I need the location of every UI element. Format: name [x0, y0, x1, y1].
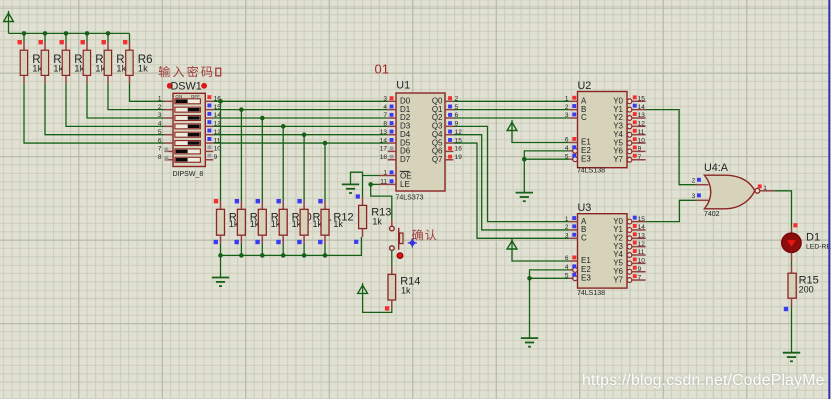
wire U1 Q4 to U3 B: [453, 135, 569, 230]
svg-text:11: 11: [638, 129, 645, 136]
resistor R7 1k: [214, 199, 243, 255]
svg-text:3: 3: [692, 193, 696, 200]
svg-text:7: 7: [638, 154, 642, 161]
resistor R4 1k: [81, 33, 111, 83]
svg-text:14: 14: [380, 137, 388, 144]
wire U1 LE to button: [371, 183, 380, 185]
wire R14 bottom to power: [363, 296, 392, 313]
junction node 1: [218, 99, 223, 104]
ground (left of U1 LE): [342, 184, 359, 193]
svg-text:Y7: Y7: [613, 155, 623, 164]
svg-text:3: 3: [383, 96, 387, 103]
svg-text:7: 7: [638, 274, 642, 281]
svg-text:7: 7: [158, 146, 162, 153]
wire R4 bottom to DSW1 pin 3: [87, 84, 165, 118]
node label 输入密码 (enter password): [159, 66, 221, 77]
resistor R15 200: [784, 265, 819, 311]
junction node 3: [260, 116, 265, 121]
junction node 2: [239, 107, 244, 112]
svg-text:15: 15: [638, 96, 646, 103]
DSW1 right pins 16-9: [205, 95, 221, 161]
switch DSW1 DIPSW_8: [167, 80, 207, 166]
svg-text:8: 8: [158, 154, 162, 161]
power stem: [362, 293, 364, 296]
wire U1 Q1 to U2 B: [453, 109, 569, 111]
svg-text:5: 5: [158, 129, 162, 136]
wire DSW1 pin 13 to U1 D3: [213, 125, 387, 127]
svg-text:1k: 1k: [372, 217, 382, 227]
wire down to R12: [324, 143, 326, 201]
svg-text:11: 11: [638, 249, 645, 256]
resistor R12 1k: [318, 199, 353, 255]
NOR gate U4:A 7402: [692, 162, 775, 218]
wire down to R9: [261, 118, 263, 201]
svg-text:2: 2: [692, 177, 696, 184]
wire U1 Q3 to U3 A: [453, 126, 569, 221]
ground (under U2): [516, 193, 533, 202]
resistor R3 1k: [60, 33, 90, 83]
wire R1 bottom to DSW1 pin 6: [24, 84, 165, 143]
DSW1 part name DIPSW_8: [173, 171, 204, 178]
DSW1 left pins 1-8: [158, 96, 173, 161]
svg-text:13: 13: [638, 233, 646, 240]
svg-text:9: 9: [214, 154, 218, 161]
push button (confirm): [390, 219, 403, 250]
resistor R11 1k: [297, 199, 332, 255]
junction node 5: [302, 132, 307, 137]
power symbol (VCC at U3 E1): [507, 239, 517, 249]
svg-text:C: C: [581, 113, 587, 122]
wire U1 Q0 to U2 A: [453, 100, 569, 102]
wire OE net down to R13: [362, 176, 364, 198]
svg-text:200: 200: [799, 285, 814, 295]
wire ground rail under R7-R12 to R13 bottom: [221, 237, 362, 255]
label 确认 (confirm): [412, 229, 437, 240]
svg-text:Q7: Q7: [432, 155, 443, 164]
svg-text:7402: 7402: [704, 211, 720, 218]
junction LE node: [368, 182, 373, 187]
wire rail to ground: [220, 255, 222, 277]
ground (under R7): [212, 278, 229, 287]
svg-text:18: 18: [380, 154, 388, 161]
resistor R6 1k: [123, 33, 153, 83]
svg-text:19: 19: [455, 154, 463, 161]
LED D1 LED-RED: [782, 223, 831, 262]
resistor R8 1k: [235, 199, 264, 255]
power symbol (VCC top-left): [4, 11, 14, 22]
resistor R1 1k: [18, 33, 48, 83]
net label 01: [375, 62, 389, 77]
wire U1 Q2 to U2 C: [453, 117, 569, 119]
svg-text:1: 1: [383, 170, 387, 177]
svg-text:74LS138: 74LS138: [577, 168, 605, 175]
decoder U3 74LS138: [565, 202, 646, 297]
wire VCC rail to R1-R6 tops: [9, 22, 130, 34]
svg-text:Y7: Y7: [613, 275, 623, 284]
svg-text:D7: D7: [400, 155, 411, 164]
junction dots on ground rail: [218, 253, 327, 258]
svg-text:74LS138: 74LS138: [577, 290, 605, 297]
wire R3 bottom to DSW1 pin 4: [66, 84, 165, 127]
watermark: [582, 372, 825, 390]
svg-text:1: 1: [763, 185, 767, 192]
wire U2 E2/E3 to ground: [524, 151, 569, 159]
red node marker: [397, 253, 403, 259]
resistor R5 1k: [102, 33, 132, 83]
decoder U2 74LS138: [565, 80, 646, 175]
svg-text:3: 3: [565, 233, 569, 240]
svg-text:1k: 1k: [138, 64, 148, 75]
svg-text:OE: OE: [400, 171, 412, 180]
wire down to R7: [220, 101, 222, 201]
svg-text:1: 1: [158, 96, 162, 103]
svg-text:9: 9: [638, 146, 642, 153]
svg-text:D1: D1: [806, 231, 820, 243]
svg-text:14: 14: [638, 224, 646, 231]
junction U3 E3: [527, 276, 532, 281]
svg-text:17: 17: [380, 146, 388, 153]
wire DSW1 pin 14 to U1 D2: [213, 117, 387, 119]
ground (under U3): [521, 338, 538, 347]
wire DSW1 pin 11 to U1 D5: [213, 142, 387, 144]
sheet border (blue): [828, 0, 830, 399]
svg-text:2: 2: [565, 224, 569, 231]
svg-text:C: C: [581, 234, 587, 243]
junction node 4: [281, 124, 286, 129]
svg-text:9: 9: [638, 266, 642, 273]
resistor R14 1k: [385, 266, 420, 310]
svg-text:E3: E3: [581, 274, 591, 283]
wire U3 E2/E3 to ground: [530, 270, 570, 278]
svg-text:LED-RED: LED-RED: [806, 244, 831, 251]
wire U2 E1 to power: [512, 131, 569, 143]
svg-text:1k: 1k: [401, 286, 411, 296]
resistor R9 1k: [255, 199, 284, 255]
svg-text:16: 16: [455, 146, 463, 153]
resistor R13 1k: [354, 194, 391, 244]
wire U3 Y0 to U4 input 3: [646, 200, 696, 221]
wire down to R10: [282, 126, 284, 201]
svg-text:1k: 1k: [116, 64, 126, 75]
resistor R10 1k: [276, 199, 311, 255]
power symbol (VCC at R14): [358, 283, 368, 293]
wire U1 Q5 to U3 C: [453, 143, 569, 238]
wire DSW1 pin 12 to U1 D4: [213, 134, 387, 136]
svg-text:8: 8: [383, 121, 387, 128]
wire DSW1 pin 16 to U1 D0: [213, 100, 387, 102]
svg-text:2: 2: [158, 104, 162, 111]
svg-text:15: 15: [638, 216, 646, 223]
svg-text:13: 13: [380, 129, 388, 136]
wire DSW1 pin 15 to U1 D1: [213, 109, 387, 111]
wire U2 Y1 to U4 input 2: [646, 110, 696, 185]
svg-text:10: 10: [638, 137, 646, 144]
svg-text:2: 2: [565, 104, 569, 111]
wire R6 bottom to DSW1 pin 1: [130, 84, 165, 102]
svg-text:E1: E1: [581, 256, 591, 265]
ground (under R15): [783, 353, 800, 362]
svg-text:U4:A: U4:A: [704, 162, 729, 174]
svg-text:7: 7: [383, 112, 387, 119]
svg-text:DSW1: DSW1: [171, 80, 202, 92]
svg-text:13: 13: [638, 112, 646, 119]
wire U4 output to LED D1: [774, 191, 791, 228]
svg-text:10: 10: [638, 258, 646, 265]
svg-text:1k: 1k: [333, 219, 343, 229]
svg-text:ON: ON: [175, 94, 182, 99]
wire button to R14: [391, 251, 393, 267]
junction U2 E3: [522, 157, 527, 162]
svg-text:12: 12: [638, 241, 646, 248]
svg-text:3: 3: [158, 112, 162, 119]
svg-text:1: 1: [565, 96, 569, 103]
wire down to R8: [240, 110, 242, 201]
svg-text:4: 4: [158, 121, 162, 128]
resistor R2 1k: [39, 33, 69, 83]
junction dots on VCC rail: [22, 31, 111, 36]
svg-text:74LS373: 74LS373: [396, 194, 424, 201]
latch U1 74LS373: [380, 79, 463, 201]
svg-text:U3: U3: [578, 202, 592, 214]
svg-text:12: 12: [638, 121, 646, 128]
svg-text:DIPSW_8: DIPSW_8: [173, 171, 204, 178]
wire R15 to ground: [791, 307, 793, 353]
wire U1 OE to ground and R13 top: [351, 172, 380, 184]
junction node 6: [323, 141, 328, 146]
power symbol (VCC at U2 E1): [507, 120, 517, 130]
svg-text:3: 3: [565, 112, 569, 119]
svg-text:14: 14: [638, 104, 646, 111]
svg-text:U1: U1: [396, 79, 410, 91]
wire LED to R15: [791, 262, 793, 265]
svg-text:11: 11: [380, 179, 387, 186]
origin marker (blue cross): [408, 238, 417, 247]
wire R2 bottom to DSW1 pin 5: [45, 84, 165, 135]
svg-text:6: 6: [158, 137, 162, 144]
svg-text:1: 1: [565, 216, 569, 223]
svg-text:01: 01: [375, 62, 389, 77]
svg-text:U2: U2: [578, 80, 592, 92]
svg-text:E3: E3: [581, 154, 591, 163]
svg-text:OFF: OFF: [191, 94, 200, 99]
svg-text:LE: LE: [400, 180, 410, 189]
wire U3 E1 to power: [512, 249, 569, 261]
wire R5 bottom to DSW1 pin 2: [108, 84, 165, 110]
wire down to R11: [303, 135, 305, 201]
svg-text:4: 4: [383, 104, 387, 111]
